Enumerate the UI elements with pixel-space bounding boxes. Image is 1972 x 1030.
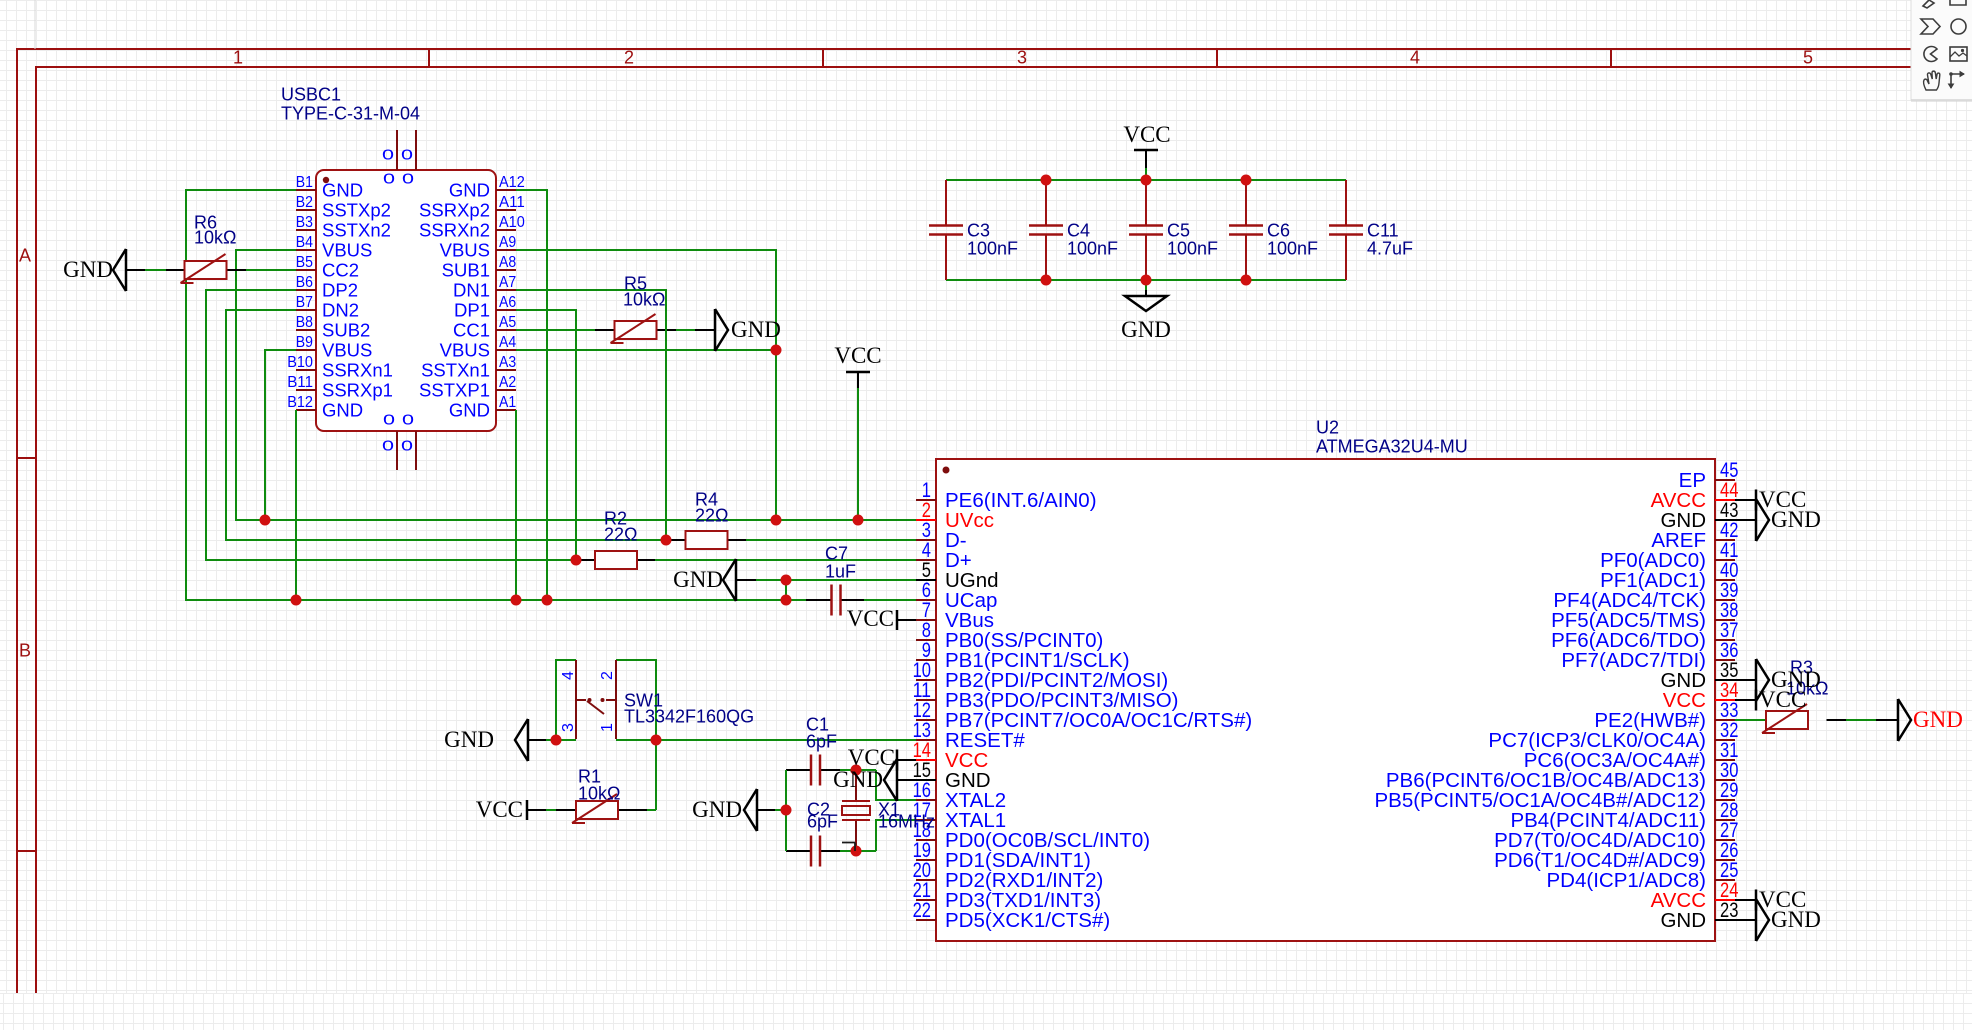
svg-text:B8: B8 [296,314,313,331]
svg-text:CC1: CC1 [453,319,490,340]
svg-text:A9: A9 [499,234,516,251]
svg-text:1: 1 [599,723,616,732]
svg-text:U2: U2 [1316,417,1339,437]
svg-text:22: 22 [913,899,931,922]
svg-text:GND: GND [731,317,781,342]
svg-text:VCC: VCC [1759,687,1806,712]
svg-text:A2: A2 [499,374,516,391]
svg-text:3: 3 [560,723,577,732]
svg-text:VBUS: VBUS [322,239,372,260]
svg-text:C6: C6 [1267,220,1290,240]
svg-text:SSRXp2: SSRXp2 [419,199,490,220]
svg-text:0: 0 [383,170,395,187]
svg-text:B1: B1 [296,174,313,191]
svg-text:6pF: 6pF [807,811,838,831]
svg-text:SUB1: SUB1 [442,259,490,280]
svg-text:A12: A12 [499,174,525,191]
svg-text:B5: B5 [296,254,313,271]
svg-text:0: 0 [402,170,414,187]
svg-text:GND: GND [449,399,490,420]
svg-text:0: 0 [383,411,395,428]
svg-text:C7: C7 [825,543,848,563]
svg-text:10kΩ: 10kΩ [194,227,236,247]
svg-text:B3: B3 [296,214,313,231]
svg-text:5: 5 [1803,47,1813,67]
svg-text:C3: C3 [967,220,990,240]
svg-text:B11: B11 [287,374,313,391]
svg-text:10kΩ: 10kΩ [623,289,665,309]
svg-text:4.7uF: 4.7uF [1367,238,1413,258]
svg-text:GND: GND [63,257,113,282]
svg-text:A3: A3 [499,354,516,371]
svg-text:B: B [19,640,31,660]
svg-text:6pF: 6pF [806,731,837,751]
svg-text:SSRXn1: SSRXn1 [322,359,393,380]
svg-text:PD5(XCK1/CTS#): PD5(XCK1/CTS#) [945,909,1110,932]
svg-text:100nF: 100nF [967,238,1018,258]
svg-text:SSRXp1: SSRXp1 [322,379,393,400]
svg-text:TYPE-C-31-M-04: TYPE-C-31-M-04 [281,103,420,123]
svg-text:100nF: 100nF [1167,238,1218,258]
svg-text:B10: B10 [287,354,313,371]
svg-text:VBUS: VBUS [440,239,490,260]
svg-text:100nF: 100nF [1067,238,1118,258]
svg-text:1uF: 1uF [825,561,856,581]
svg-text:GND: GND [322,399,363,420]
svg-text:GND: GND [1771,907,1821,932]
svg-text:10kΩ: 10kΩ [578,783,620,803]
svg-text:B9: B9 [296,334,313,351]
svg-text:0: 0 [382,146,394,163]
svg-text:4: 4 [560,671,577,680]
svg-text:VBUS: VBUS [440,339,490,360]
svg-text:100nF: 100nF [1267,238,1318,258]
svg-text:B2: B2 [296,194,313,211]
svg-text:2: 2 [624,47,634,67]
svg-text:A1: A1 [499,394,516,411]
svg-text:DN2: DN2 [322,299,359,320]
svg-text:C11: C11 [1367,220,1399,240]
svg-text:B4: B4 [296,234,313,251]
svg-text:0: 0 [401,146,413,163]
svg-text:GND: GND [1121,317,1171,342]
svg-text:0: 0 [401,437,413,454]
svg-text:0: 0 [402,411,414,428]
svg-text:22Ω: 22Ω [604,524,637,544]
svg-text:GND: GND [833,767,883,792]
svg-text:GND: GND [692,797,742,822]
svg-text:B12: B12 [287,394,313,411]
svg-text:16MHz: 16MHz [878,811,935,831]
svg-text:GND: GND [322,179,363,200]
svg-text:2: 2 [599,671,616,680]
svg-text:ATMEGA32U4-MU: ATMEGA32U4-MU [1316,436,1468,456]
svg-text:A8: A8 [499,254,516,271]
svg-text:DP2: DP2 [322,279,358,300]
svg-text:TL3342F160QG: TL3342F160QG [624,706,754,726]
svg-text:VCC: VCC [847,606,894,631]
svg-text:A7: A7 [499,274,516,291]
svg-text:GND: GND [1771,507,1821,532]
svg-text:CC2: CC2 [322,259,359,280]
svg-text:GND: GND [1913,707,1963,732]
svg-text:VBUS: VBUS [322,339,372,360]
svg-text:A4: A4 [499,334,516,351]
svg-text:C4: C4 [1067,220,1090,240]
svg-text:SSTXn2: SSTXn2 [322,219,391,240]
svg-text:A6: A6 [499,294,516,311]
svg-text:SSTXn1: SSTXn1 [421,359,490,380]
svg-text:GND: GND [449,179,490,200]
svg-text:VCC: VCC [1123,122,1170,147]
svg-text:GND: GND [1660,909,1706,932]
svg-text:GND: GND [673,567,723,592]
svg-text:0: 0 [382,437,394,454]
svg-text:SSRXn2: SSRXn2 [419,219,490,240]
svg-text:B6: B6 [296,274,313,291]
svg-text:VCC: VCC [476,797,523,822]
svg-text:1: 1 [233,47,243,67]
svg-text:C5: C5 [1167,220,1190,240]
svg-text:VCC: VCC [834,343,881,368]
svg-text:23: 23 [1720,899,1738,922]
svg-text:A11: A11 [499,194,525,211]
svg-text:DN1: DN1 [453,279,490,300]
svg-text:GND: GND [444,727,494,752]
svg-text:3: 3 [1017,47,1027,67]
svg-text:22Ω: 22Ω [695,505,728,525]
svg-text:A: A [19,245,31,265]
svg-text:SUB2: SUB2 [322,319,370,340]
svg-text:A10: A10 [499,214,525,231]
svg-text:SSTXP1: SSTXP1 [419,379,490,400]
svg-text:A5: A5 [499,314,516,331]
svg-text:SSTXp2: SSTXp2 [322,199,391,220]
svg-text:DP1: DP1 [454,299,490,320]
svg-text:USBC1: USBC1 [281,84,341,104]
svg-text:B7: B7 [296,294,313,311]
svg-text:4: 4 [1410,47,1420,67]
